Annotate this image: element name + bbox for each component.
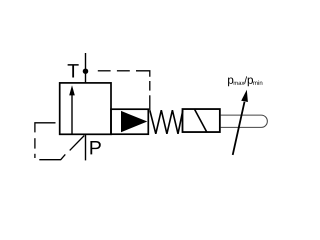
- check valve box: [111, 109, 148, 134]
- node junction dot: [83, 68, 89, 74]
- solenoid box: [183, 109, 220, 132]
- port label T: [68, 64, 79, 77]
- check valve triangle: [121, 111, 147, 132]
- wire pressure line P: [85, 134, 87, 160]
- label pmax/pmin: [228, 76, 262, 86]
- wire tank line T: [85, 53, 87, 84]
- wire dashed pilot drain line: [98, 71, 150, 110]
- solenoid diagonal: [195, 109, 207, 132]
- spring: [150, 110, 183, 134]
- wire dashed remote pilot line: [35, 123, 84, 160]
- solenoid plunger pin: [221, 115, 268, 127]
- flow arrow in valve body: [69, 85, 75, 134]
- port label P: [90, 141, 100, 154]
- valve body main box: [60, 83, 111, 134]
- adjustment arrow: [233, 90, 248, 155]
